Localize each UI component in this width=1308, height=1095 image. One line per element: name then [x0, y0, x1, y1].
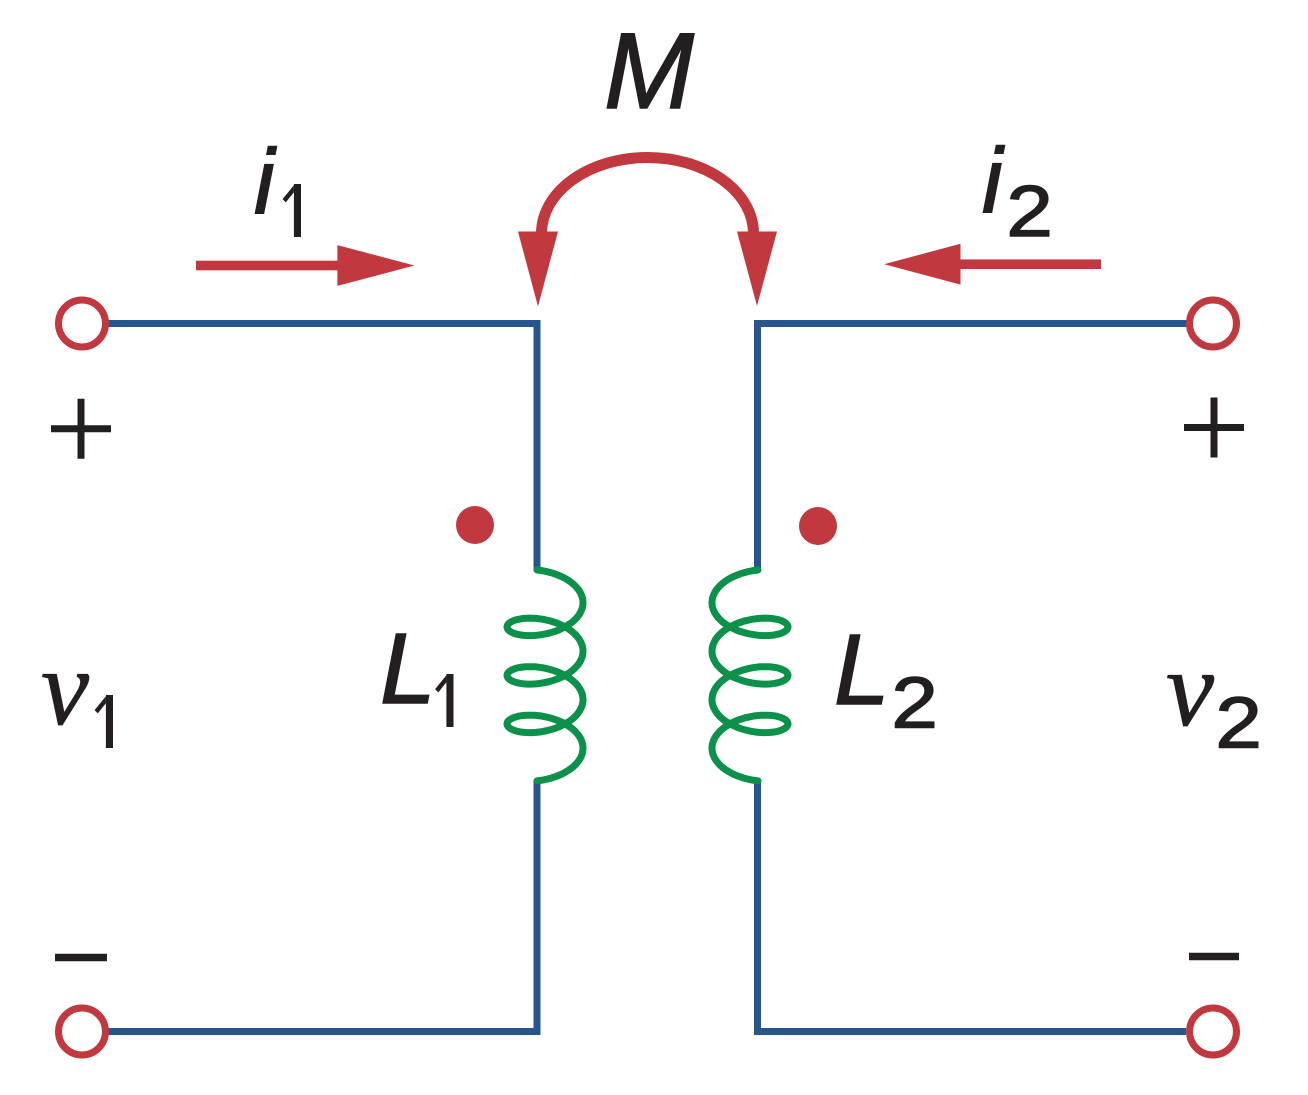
terminal top-left [59, 300, 106, 347]
svg-text:v: v [41, 629, 89, 748]
polarity dot L1 [456, 506, 494, 544]
current arrow i1 [196, 245, 414, 286]
svg-text:i: i [982, 130, 1005, 232]
terminal bottom-right [1190, 1008, 1237, 1055]
polarity dot L2 [799, 507, 837, 545]
svg-text:L: L [834, 614, 890, 726]
mutual coupling arc M [542, 158, 754, 234]
plus sign right [1184, 398, 1244, 458]
terminal bottom-left [59, 1008, 106, 1055]
wire bottom-left + left vertical lower [108, 781, 537, 1032]
svg-text:2: 2 [891, 662, 937, 743]
arc arrowhead left [518, 232, 558, 307]
svg-text:i: i [254, 131, 277, 233]
svg-text:L: L [380, 613, 436, 725]
inductor L1 coil [507, 570, 583, 781]
minus sign left [55, 954, 107, 962]
svg-text:2: 2 [1215, 682, 1261, 763]
wire bottom-right + right vertical lower [758, 780, 1187, 1032]
svg-text:M: M [604, 10, 694, 131]
wire top-left + left vertical upper [108, 324, 537, 572]
terminal top-right [1190, 300, 1237, 347]
wire top-right + right vertical upper [758, 324, 1191, 571]
current arrow i2 [884, 244, 1101, 285]
inductor L2 coil [712, 570, 788, 781]
svg-text:2: 2 [1006, 170, 1052, 251]
minus sign right [1189, 953, 1239, 961]
arc arrowhead right [737, 232, 777, 307]
svg-text:v: v [1166, 630, 1214, 749]
plus sign left [51, 399, 111, 459]
